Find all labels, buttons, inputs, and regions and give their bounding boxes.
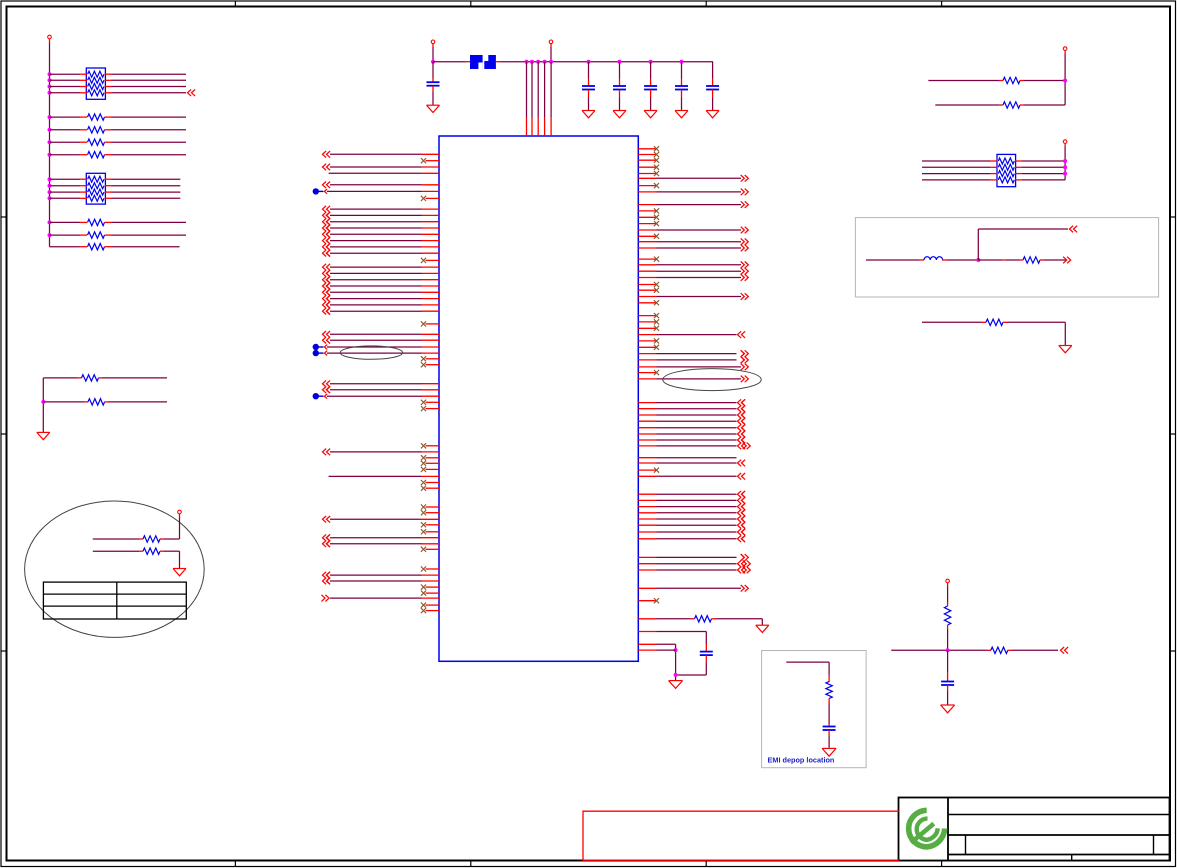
IC pin stub — [638, 258, 656, 260]
wire — [657, 296, 742, 298]
IC pin stub — [638, 408, 656, 410]
pin stub — [828, 730, 830, 736]
pin stub — [80, 191, 87, 193]
wire — [501, 61, 713, 63]
port arrow — [325, 394, 328, 399]
IC pin stub — [422, 240, 440, 242]
IC pin stub — [426, 524, 440, 526]
no-connect — [421, 461, 426, 466]
IC pin stub — [638, 289, 656, 291]
capacitor — [700, 652, 713, 656]
IC pin stub — [426, 323, 440, 325]
wire — [657, 445, 737, 447]
port arrow — [326, 276, 330, 283]
wire — [657, 499, 737, 501]
pin stub — [105, 401, 109, 403]
pin stub — [947, 625, 949, 629]
IC pin stub — [422, 153, 440, 155]
wire — [327, 346, 422, 348]
port arrow — [323, 225, 331, 232]
wire — [330, 389, 422, 391]
no-connect — [421, 406, 426, 411]
resistor element — [998, 171, 1014, 177]
pin stub — [1015, 160, 1022, 162]
pin stub — [80, 234, 88, 236]
ground — [644, 111, 657, 118]
capacitor — [706, 86, 719, 90]
IC supply pin — [526, 117, 528, 136]
resistor — [88, 219, 105, 225]
wire — [112, 197, 181, 199]
wire — [109, 401, 168, 403]
wire — [978, 259, 1002, 261]
ground — [427, 105, 440, 112]
IC pin stub — [638, 296, 656, 298]
port arrow — [741, 175, 749, 182]
no-connect — [421, 467, 426, 472]
wire — [112, 116, 187, 118]
wire — [50, 246, 80, 248]
highlight ellipse — [663, 369, 761, 391]
IC pin stub — [638, 148, 656, 150]
junction — [1063, 165, 1067, 169]
IC pin stub — [422, 166, 440, 168]
port arrow — [326, 244, 330, 251]
IC pin stub — [638, 445, 656, 447]
wire — [50, 116, 80, 118]
pin stub — [990, 160, 998, 162]
resistor — [88, 399, 105, 405]
wire — [330, 451, 422, 453]
wire — [50, 234, 80, 236]
wire — [93, 550, 139, 552]
port arrow — [741, 201, 749, 208]
wire — [657, 439, 737, 441]
port arrow — [323, 449, 331, 456]
pin stub — [80, 185, 87, 187]
capacitor — [644, 86, 657, 90]
junction — [48, 128, 52, 132]
junction — [649, 60, 653, 64]
note box — [762, 651, 867, 768]
wire — [657, 531, 737, 533]
wire — [330, 214, 422, 216]
wire — [330, 339, 422, 341]
ground — [941, 705, 955, 713]
port arrow — [323, 206, 331, 213]
pin stub — [160, 538, 164, 540]
IC pin stub — [638, 402, 656, 404]
wire — [330, 580, 422, 582]
no-connect — [654, 215, 659, 220]
wire — [681, 62, 683, 79]
port arrow — [741, 350, 749, 357]
wire — [922, 179, 990, 181]
IC pin stub — [638, 524, 656, 526]
IC pin stub — [422, 227, 440, 229]
wire — [650, 98, 652, 111]
wire — [330, 252, 422, 254]
IC pin stub — [638, 264, 656, 266]
capacitor — [941, 682, 954, 686]
IC pin stub — [422, 172, 440, 174]
pin stub — [947, 602, 949, 606]
wire — [922, 166, 990, 168]
port arrow — [323, 237, 331, 244]
wire — [112, 154, 187, 156]
wire — [1022, 160, 1065, 162]
wire — [657, 420, 737, 422]
IC supply pin — [544, 117, 546, 136]
wire — [50, 154, 80, 156]
IC pin stub — [638, 493, 656, 495]
title block — [899, 798, 1170, 861]
wire — [330, 221, 422, 223]
wire — [657, 493, 737, 495]
wire — [866, 259, 919, 261]
wire — [657, 462, 737, 464]
IC pin stub — [638, 216, 656, 218]
resistor element — [88, 90, 104, 96]
pin stub — [80, 141, 88, 143]
port arrow — [323, 380, 331, 387]
port arrow — [325, 351, 328, 356]
IC pin stub — [422, 339, 440, 341]
IC pin stub — [638, 353, 656, 355]
wire — [828, 736, 830, 748]
IC pin stub — [638, 235, 656, 237]
port arrow — [741, 274, 749, 281]
IC pin stub — [422, 389, 440, 391]
wire — [922, 173, 990, 175]
IC pin stub — [426, 358, 440, 360]
IC pin stub — [638, 334, 656, 336]
pin stub — [681, 90, 683, 98]
no-connect — [421, 591, 426, 596]
pin stub — [139, 550, 143, 552]
pin stub — [105, 141, 112, 143]
resistor pack RN2 body — [86, 173, 105, 204]
junction — [41, 400, 45, 404]
IC pin stub — [422, 574, 440, 576]
junction — [48, 190, 52, 194]
no-connect — [421, 321, 426, 326]
resistor element — [88, 77, 104, 83]
junction — [549, 60, 553, 64]
ferrite bead FB1 — [470, 55, 496, 69]
IC pin stub — [426, 160, 440, 162]
wire — [112, 141, 187, 143]
IC pin stub — [638, 414, 656, 416]
IC pin stub — [638, 177, 656, 179]
wire — [1012, 649, 1059, 651]
IC supply pin — [537, 117, 539, 136]
wire — [50, 92, 81, 94]
wire — [657, 264, 742, 266]
pin stub — [919, 259, 924, 261]
pin stub — [999, 104, 1003, 106]
port arrow — [326, 237, 330, 244]
resistor — [944, 606, 950, 625]
junction — [1063, 172, 1067, 176]
wire — [947, 587, 949, 603]
pin stub — [80, 129, 88, 131]
IC pin stub — [422, 537, 440, 539]
port arrow — [738, 567, 751, 574]
wire — [50, 141, 80, 143]
pin stub — [691, 618, 695, 620]
wire — [330, 184, 422, 186]
wire — [1044, 259, 1066, 261]
port arrow — [738, 497, 746, 504]
wire — [327, 395, 422, 397]
wire — [657, 334, 737, 336]
junction — [976, 258, 980, 262]
wire — [330, 246, 422, 248]
port arrow — [738, 560, 751, 567]
wire — [50, 197, 81, 199]
junction — [48, 91, 52, 95]
pin stub — [650, 90, 652, 98]
port arrow — [738, 431, 746, 438]
net stub dot — [313, 393, 324, 399]
wire — [1022, 166, 1065, 168]
no-connect — [654, 598, 659, 603]
no-connect — [421, 400, 426, 405]
pin stub — [105, 116, 112, 118]
port arrow — [738, 522, 746, 529]
wire — [657, 457, 737, 459]
wire — [112, 92, 187, 94]
pin stub — [828, 675, 830, 682]
port arrow — [738, 424, 746, 431]
pin stub — [105, 73, 112, 75]
resistor — [88, 127, 105, 133]
IC pin stub — [638, 359, 656, 361]
port arrow — [323, 151, 331, 158]
IC pin stub — [638, 587, 656, 589]
IC pin stub — [426, 592, 440, 594]
wire — [657, 414, 737, 416]
no-connect — [654, 319, 659, 324]
note text — [768, 756, 835, 765]
wire — [657, 563, 737, 565]
wire — [947, 691, 949, 705]
IC pin stub — [638, 302, 656, 304]
port arrow — [741, 238, 749, 245]
no-connect — [654, 288, 659, 293]
no-connect — [421, 547, 426, 552]
wire — [657, 408, 737, 410]
wire — [330, 597, 422, 599]
wire — [330, 333, 422, 335]
wire — [712, 62, 714, 79]
pin stub — [139, 538, 143, 540]
IC pin stub — [638, 618, 656, 620]
junction — [48, 196, 52, 200]
IC pin stub — [426, 506, 440, 508]
IC pin stub — [426, 401, 440, 403]
power symbol VCC2 — [549, 40, 553, 47]
port arrow — [741, 554, 749, 561]
port arrow — [323, 541, 331, 548]
port arrow — [738, 516, 746, 523]
IC pin stub — [422, 451, 440, 453]
resistor — [88, 139, 105, 145]
port arrow — [323, 212, 331, 219]
pin stub — [1003, 321, 1007, 323]
IC pin stub — [422, 543, 440, 545]
wire — [1022, 179, 1065, 181]
pin stub — [105, 185, 112, 187]
port arrow — [326, 295, 330, 302]
junction — [48, 153, 52, 157]
IC pin stub — [422, 246, 440, 248]
IC pin stub — [638, 469, 656, 471]
wire — [676, 662, 707, 675]
no-connect — [654, 165, 659, 170]
net stub dot — [313, 188, 324, 194]
port arrow — [741, 364, 749, 371]
pin stub — [588, 79, 590, 87]
wire — [947, 650, 949, 672]
IC pin stub — [426, 487, 440, 489]
pin stub — [105, 197, 112, 199]
wire — [50, 221, 80, 223]
power symbol VDD — [48, 35, 52, 43]
IC pin stub — [422, 580, 440, 582]
IC pin stub — [638, 600, 656, 602]
wire — [650, 62, 652, 79]
wire — [657, 524, 737, 526]
port arrow — [738, 331, 746, 338]
pin stub — [1019, 259, 1023, 261]
wire — [657, 241, 742, 243]
IC pin stub — [426, 568, 440, 570]
IC pin stub — [422, 184, 440, 186]
no-connect — [421, 486, 426, 491]
pin stub — [80, 73, 87, 75]
port arrow — [326, 270, 330, 277]
pin stub — [999, 80, 1003, 82]
no-connect — [421, 480, 426, 485]
no-connect — [421, 455, 426, 460]
junction — [946, 648, 950, 652]
junction — [48, 184, 52, 188]
no-connect — [654, 234, 659, 239]
resistor — [143, 536, 160, 542]
wire — [112, 79, 187, 81]
IC pin stub — [638, 166, 656, 168]
no-connect — [421, 566, 426, 571]
pin stub — [80, 79, 87, 81]
IC pin stub — [422, 272, 440, 274]
pin stub — [1002, 259, 1006, 261]
port arrow — [325, 345, 328, 350]
IC pin stub — [638, 512, 656, 514]
resistor — [88, 232, 105, 238]
no-connect — [654, 171, 659, 176]
wire — [935, 104, 999, 106]
wire — [330, 240, 422, 242]
wire — [657, 632, 707, 645]
IC pin stub — [426, 548, 440, 550]
wire — [50, 129, 80, 131]
port arrow — [323, 244, 331, 251]
pin stub — [650, 79, 652, 87]
pin stub — [1015, 179, 1022, 181]
no-connect — [421, 510, 426, 515]
resistor element — [88, 183, 104, 189]
no-connect — [421, 585, 426, 590]
pin stub — [1020, 104, 1024, 106]
IC pin stub — [638, 185, 656, 187]
wire — [164, 551, 180, 568]
wire — [1022, 173, 1065, 175]
port arrow — [323, 164, 331, 171]
IC pin stub — [638, 340, 656, 342]
IC pin stub — [426, 364, 440, 366]
pin stub — [1040, 259, 1044, 261]
no-connect — [654, 326, 659, 331]
pin stub — [105, 154, 112, 156]
wire — [657, 277, 742, 279]
IC pin stub — [638, 241, 656, 243]
resistor — [88, 114, 105, 120]
port arrow — [738, 503, 746, 510]
wire — [544, 62, 546, 117]
pin stub — [80, 92, 87, 94]
IC pin stub — [638, 556, 656, 558]
junction — [431, 60, 435, 64]
IC pin stub — [638, 649, 656, 651]
resistor pack RN1 body — [86, 68, 105, 99]
wire — [330, 291, 422, 293]
IC pin stub — [638, 173, 656, 175]
pin stub — [987, 649, 991, 651]
wire — [330, 310, 422, 312]
IC pin stub — [422, 208, 440, 210]
IC pin stub — [426, 197, 440, 199]
pin stub — [619, 90, 621, 98]
IC pin stub — [638, 538, 656, 540]
IC pin stub — [422, 333, 440, 335]
junction — [674, 648, 678, 652]
wire — [329, 172, 422, 174]
IC pin stub — [638, 518, 656, 520]
IC pin stub — [426, 512, 440, 514]
wire — [588, 62, 590, 79]
junction — [1063, 159, 1067, 163]
port arrow — [738, 536, 746, 543]
port arrow — [326, 308, 330, 315]
wire — [657, 270, 742, 272]
wire — [112, 73, 187, 75]
net stub dot — [313, 350, 324, 356]
wire — [50, 191, 81, 193]
port arrow — [326, 572, 330, 579]
junction — [680, 60, 684, 64]
IC pin stub — [638, 531, 656, 533]
port arrow — [323, 534, 331, 541]
vertical bus wire — [1064, 147, 1066, 180]
wire — [657, 618, 691, 620]
wire — [716, 619, 763, 625]
net stub dot — [313, 344, 324, 350]
port arrow — [326, 212, 330, 219]
port arrow — [326, 289, 330, 296]
wire — [657, 366, 742, 368]
